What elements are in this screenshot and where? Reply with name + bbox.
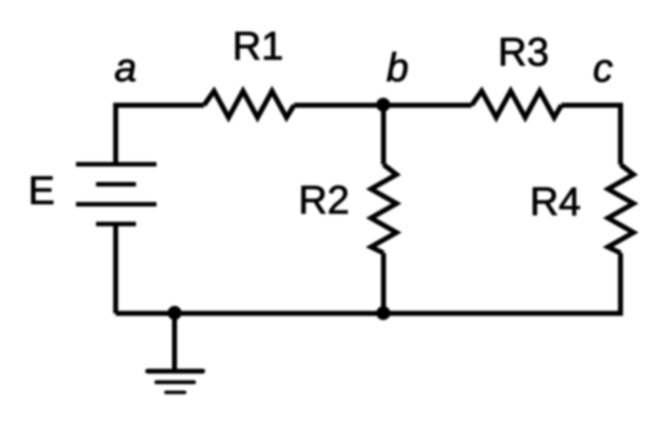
svg-text:c: c	[593, 47, 613, 91]
svg-text:R2: R2	[298, 179, 349, 223]
svg-text:a: a	[114, 46, 136, 90]
svg-text:E: E	[28, 169, 55, 213]
svg-text:R1: R1	[232, 25, 283, 69]
svg-text:R3: R3	[498, 30, 549, 74]
svg-text:b: b	[386, 46, 408, 90]
svg-text:R4: R4	[530, 180, 581, 224]
